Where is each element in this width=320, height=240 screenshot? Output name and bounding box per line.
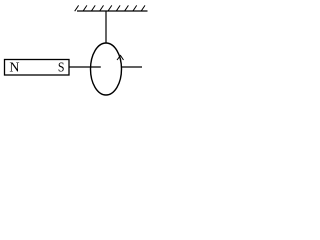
ceiling hatch marks bbox=[75, 5, 145, 11]
coil loop (ellipse) bbox=[91, 43, 122, 95]
svg-text:S: S bbox=[58, 61, 65, 76]
background bbox=[0, 0, 167, 100]
string from ceiling to coil bbox=[105, 11, 107, 44]
axis line left segment (magnet to inside coil) bbox=[69, 66, 101, 68]
bar magnet body bbox=[5, 60, 70, 76]
ceiling support line bbox=[77, 10, 148, 12]
current arrow on right side of coil bbox=[117, 56, 124, 61]
svg-text:N: N bbox=[9, 61, 19, 76]
axis line right segment bbox=[122, 66, 142, 68]
